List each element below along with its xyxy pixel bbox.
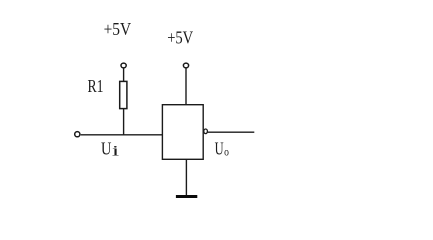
wire: resistor bottom to input node	[123, 109, 125, 136]
inversion bubble at IC output	[204, 129, 208, 134]
wire: input terminal to IC left (node A)	[81, 134, 163, 136]
ground	[176, 195, 197, 198]
input terminal circle Ui	[75, 132, 80, 137]
wire: IC bottom to ground	[185, 159, 187, 195]
svg-text:R1: R1	[88, 76, 104, 96]
wire: left supply terminal to resistor top	[123, 68, 125, 81]
op-amp / IC box U1	[162, 105, 203, 160]
svg-text:i: i	[112, 143, 119, 159]
resistor R1	[120, 81, 127, 108]
svg-text:U: U	[101, 139, 112, 159]
wire: output bubble to output end	[208, 131, 255, 133]
terminal circle (left +5V supply)	[121, 63, 126, 68]
svg-text:+5V: +5V	[104, 19, 132, 39]
svg-text:U: U	[215, 139, 224, 159]
terminal circle (center +5V supply)	[183, 63, 188, 68]
svg-text:+5V: +5V	[167, 27, 193, 47]
wire: center supply terminal to IC top	[185, 68, 187, 104]
svg-text:o: o	[224, 146, 229, 158]
